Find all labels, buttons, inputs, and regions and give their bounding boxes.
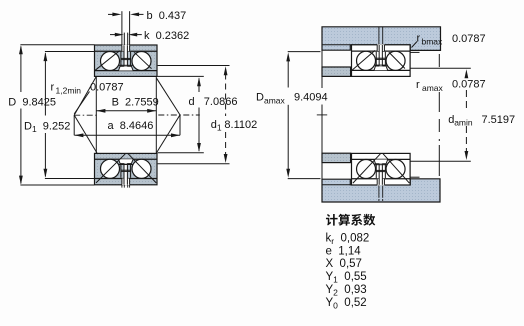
svg-text:8.1102: 8.1102	[224, 119, 257, 131]
svg-text:Y2 0,93: Y2 0,93	[326, 284, 367, 298]
svg-text:0.0787: 0.0787	[452, 79, 486, 91]
svg-text:amax: amax	[422, 83, 444, 93]
svg-text:r: r	[416, 79, 420, 91]
svg-text:0.0787: 0.0787	[90, 82, 124, 94]
svg-text:1,2min: 1,2min	[56, 85, 82, 95]
svg-text:D1 9.252: D1 9.252	[24, 121, 70, 135]
svg-text:d: d	[189, 96, 195, 108]
svg-text:0.0787: 0.0787	[452, 33, 486, 45]
svg-text:Y1 0,55: Y1 0,55	[326, 271, 367, 285]
svg-text:X 0,57: X 0,57	[326, 258, 362, 270]
svg-text:amin: amin	[454, 118, 473, 128]
svg-text:a 8.4646: a 8.4646	[108, 120, 154, 132]
svg-text:bmax: bmax	[422, 36, 444, 46]
svg-text:r: r	[417, 33, 421, 45]
svg-text:Y0 0,52: Y0 0,52	[326, 297, 367, 311]
svg-text:k 0.2362: k 0.2362	[144, 30, 189, 42]
svg-text:9.4094: 9.4094	[294, 92, 328, 104]
svg-text:7.5197: 7.5197	[482, 114, 516, 126]
svg-text:amax: amax	[264, 95, 286, 105]
svg-text:D: D	[256, 92, 264, 104]
svg-text:b 0.437: b 0.437	[147, 10, 187, 22]
svg-text:e 1,14: e 1,14	[326, 245, 362, 257]
svg-text:B 2.7559: B 2.7559	[112, 97, 159, 109]
svg-text:D 9.8425: D 9.8425	[8, 97, 56, 109]
svg-text:7.0866: 7.0866	[204, 96, 238, 108]
svg-text:r: r	[51, 82, 55, 94]
